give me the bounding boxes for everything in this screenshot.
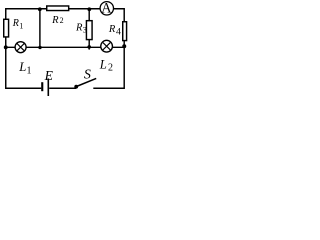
svg-text:2: 2	[60, 16, 64, 25]
svg-text:R: R	[75, 22, 83, 33]
svg-text:S: S	[84, 68, 91, 83]
svg-text:R: R	[12, 18, 19, 29]
svg-text:1: 1	[19, 22, 23, 31]
svg-text:4: 4	[116, 26, 121, 37]
svg-text:1: 1	[27, 65, 32, 76]
svg-text:L: L	[99, 57, 107, 71]
svg-text:E: E	[44, 68, 54, 83]
svg-text:L: L	[18, 60, 26, 74]
svg-text:R: R	[51, 15, 59, 26]
svg-text:3: 3	[83, 26, 87, 35]
svg-text:2: 2	[108, 63, 113, 74]
svg-text:R: R	[108, 24, 116, 35]
svg-text:A: A	[101, 0, 112, 16]
